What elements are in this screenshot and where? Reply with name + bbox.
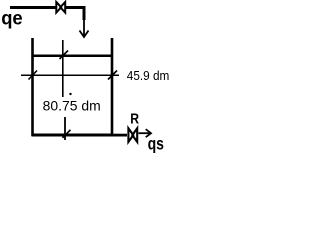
svg-text:45.9 dm: 45.9 dm: [127, 68, 170, 83]
svg-text:qe: qe: [1, 8, 23, 30]
svg-text:80.75 dm: 80.75 dm: [43, 98, 101, 113]
svg-text:qs: qs: [148, 133, 165, 153]
svg-text:R: R: [130, 111, 139, 128]
